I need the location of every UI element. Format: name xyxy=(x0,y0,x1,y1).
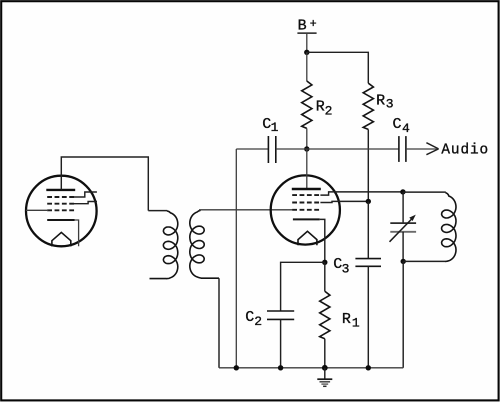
svg-text:4: 4 xyxy=(402,121,410,136)
wire R1 bottom to rail xyxy=(324,339,326,368)
junction plate node xyxy=(304,146,309,151)
wire V2 grid 2 to C3 xyxy=(320,201,368,202)
transformer T1 secondary xyxy=(190,210,219,367)
capacitor C3 xyxy=(333,256,381,276)
wire C1 left lead xyxy=(236,148,268,150)
wire V1 cathode stub xyxy=(75,220,79,246)
svg-text:2: 2 xyxy=(325,103,333,118)
svg-text:C: C xyxy=(393,116,402,133)
junction tank bottom xyxy=(401,259,406,264)
wire V1 plate lead xyxy=(61,157,148,211)
svg-text:+: + xyxy=(310,18,317,31)
audio output arrow xyxy=(426,143,438,155)
junction rail / C2 branch xyxy=(278,365,283,370)
wire C1 left to ground rail xyxy=(235,149,237,368)
transformer T1 primary xyxy=(148,211,178,279)
resistor R1 xyxy=(320,291,360,338)
svg-text:1: 1 xyxy=(352,316,360,331)
inductor L tank coil xyxy=(403,192,456,261)
wire R2 bottom to junction xyxy=(306,128,308,149)
svg-text:3: 3 xyxy=(386,97,394,112)
wire V2 cathode lead xyxy=(320,219,325,262)
wire C2 bottom to rail xyxy=(280,319,282,367)
wire tank bottom to rail corner xyxy=(402,261,404,367)
svg-text:R: R xyxy=(316,98,325,115)
tube V2 cathode xyxy=(293,218,320,220)
tube V1 heater xyxy=(52,232,71,246)
wire cathode node to R1 top xyxy=(324,262,326,291)
svg-text:R: R xyxy=(376,93,385,110)
wire V1 grid 1 stub xyxy=(74,192,97,197)
wire C1 right lead to plate node xyxy=(276,148,307,150)
wire B+ stem xyxy=(306,34,308,52)
capacitor C1 xyxy=(262,116,278,163)
node B+ xyxy=(297,17,316,34)
wire V2 plate lead xyxy=(306,149,308,188)
junction rail / C1 branch xyxy=(234,365,239,370)
wire C4 to audio arrow xyxy=(406,148,437,150)
wire C3 bottom to rail xyxy=(367,266,369,368)
resistor R3 xyxy=(363,83,393,129)
wire screen junction to C3 top xyxy=(367,201,369,258)
wire V1 grid 3 lead (antenna stub) xyxy=(26,209,48,211)
wire R3 bottom down to screen-grid junction xyxy=(367,129,369,201)
wire V1 grid 2 stub xyxy=(74,202,97,204)
svg-text:B: B xyxy=(298,17,307,34)
svg-text:1: 1 xyxy=(271,120,279,135)
wire V2 grid 1 to tank xyxy=(320,192,403,195)
wire ground rail xyxy=(219,367,403,369)
capacitor C4 xyxy=(393,116,411,162)
tube V2 envelope xyxy=(271,175,340,244)
svg-text:C: C xyxy=(245,309,254,326)
wire B+ node to R3 branch xyxy=(307,52,369,83)
tube V1 grid 1 (dashed) xyxy=(47,196,75,198)
tube V1 grid 3 (dashed) xyxy=(47,209,75,211)
tube V2 grid 3 (dashed) xyxy=(292,209,320,211)
tube V2 heater xyxy=(298,231,317,245)
svg-text:2: 2 xyxy=(254,314,262,329)
tube V1 plate xyxy=(46,189,75,191)
resistor R2 xyxy=(302,81,333,128)
svg-text:Audio: Audio xyxy=(441,143,489,159)
tube V2 plate xyxy=(292,188,321,190)
wire secondary top to V2 grid xyxy=(199,209,292,211)
wire cathode node to C2 xyxy=(281,262,325,311)
tube V1 envelope xyxy=(26,176,97,247)
wire plate node to C4 xyxy=(307,148,399,150)
junction screen grid / C3 xyxy=(366,199,371,204)
capacitor C2 xyxy=(245,309,294,329)
wire B+ node to R2 top xyxy=(306,52,308,81)
svg-text:3: 3 xyxy=(342,261,350,276)
junction rail / C3 branch xyxy=(366,365,371,370)
tube V2 grid 2 (dashed) xyxy=(292,202,320,204)
junction tank top xyxy=(400,189,405,194)
junction cathode node xyxy=(322,260,327,265)
tube V1 grid 2 (dashed) xyxy=(47,203,75,205)
tube V2 grid 1 (dashed) xyxy=(292,194,320,196)
variable capacitor (tuning) xyxy=(390,192,417,262)
ground xyxy=(317,368,332,387)
tube V1 cathode xyxy=(47,219,74,221)
junction B+ node xyxy=(304,50,309,55)
junction rail / R1 ground xyxy=(322,365,328,371)
svg-text:R: R xyxy=(342,311,351,328)
